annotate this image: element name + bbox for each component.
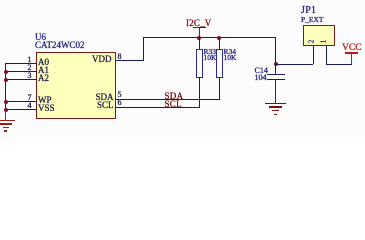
junction rail R34 (217, 36, 221, 40)
wire pin4 stub (5, 109, 37, 110)
pin name SCL (82, 101, 114, 110)
pin number 3 (21, 72, 32, 80)
pin number 7 (21, 94, 32, 102)
wire pin2 stub (5, 71, 37, 72)
connector JP1 body (303, 25, 335, 46)
pin number 8 (118, 53, 122, 61)
resistor R34 (0, 0, 1, 1)
junction pin4 (4, 108, 8, 112)
IC U6 body (36, 52, 116, 119)
junction C14 node (274, 62, 278, 66)
pin number 1 (21, 56, 32, 64)
net label SDA (165, 92, 184, 101)
wire vdd riser (143, 37, 144, 61)
wire pin7 stub (5, 101, 37, 102)
net label SCL (165, 100, 182, 109)
IC U6 comment CAT24WC02 (35, 41, 85, 50)
wire SCL (116, 107, 201, 108)
resistor R33 (0, 0, 1, 1)
value 104 (255, 74, 267, 82)
wire JP1 pin1 to VCC (326, 64, 352, 65)
wire pin8 stub (116, 60, 144, 61)
wire pin1 stub (5, 63, 37, 64)
pin name WP (38, 96, 52, 105)
wire left bus vertical (5, 63, 6, 110)
pin number 6 (118, 99, 122, 107)
pin number 5 (118, 91, 122, 99)
label C14 (255, 67, 268, 75)
capacitor C14 (0, 0, 1, 1)
value 10K (204, 54, 217, 62)
junction pin2 (4, 70, 8, 74)
power port I2C_V (0, 0, 1, 1)
pin number 4 (21, 102, 32, 110)
wire I2C_V rail (143, 37, 276, 38)
junction pin3 (4, 78, 8, 82)
pin name A1 (38, 66, 49, 75)
IC U6 designator U6 (35, 33, 46, 42)
wire node to JP1 pin1 (275, 64, 313, 65)
pin name VSS (38, 104, 55, 113)
wire JP1 pin1 drop (326, 46, 327, 64)
junction pin7 (4, 100, 8, 104)
wire rail drop (275, 37, 276, 64)
value 10K (224, 54, 237, 62)
junction rail R33 (197, 36, 201, 40)
connector JP1 comment P_EXT (301, 16, 324, 24)
pin number 2 (21, 64, 32, 72)
power port VCC (0, 0, 1, 1)
wire SDA (116, 99, 221, 100)
label R33 (204, 48, 217, 56)
wire JP1 pin2 drop (313, 46, 314, 64)
JP1 pin number 1 rotated (320, 40, 327, 44)
JP1 pin number 2 rotated (308, 40, 315, 44)
pin name A0 (38, 58, 49, 67)
ground left (0, 0, 1, 1)
ground C14 (0, 0, 1, 1)
connector JP1 designator JP1 (301, 6, 316, 16)
pin name A2 (38, 74, 49, 83)
wire pin3 stub (5, 79, 37, 80)
label R34 (224, 48, 237, 56)
pin name VDD (80, 55, 112, 64)
pin name SDA (82, 93, 114, 102)
